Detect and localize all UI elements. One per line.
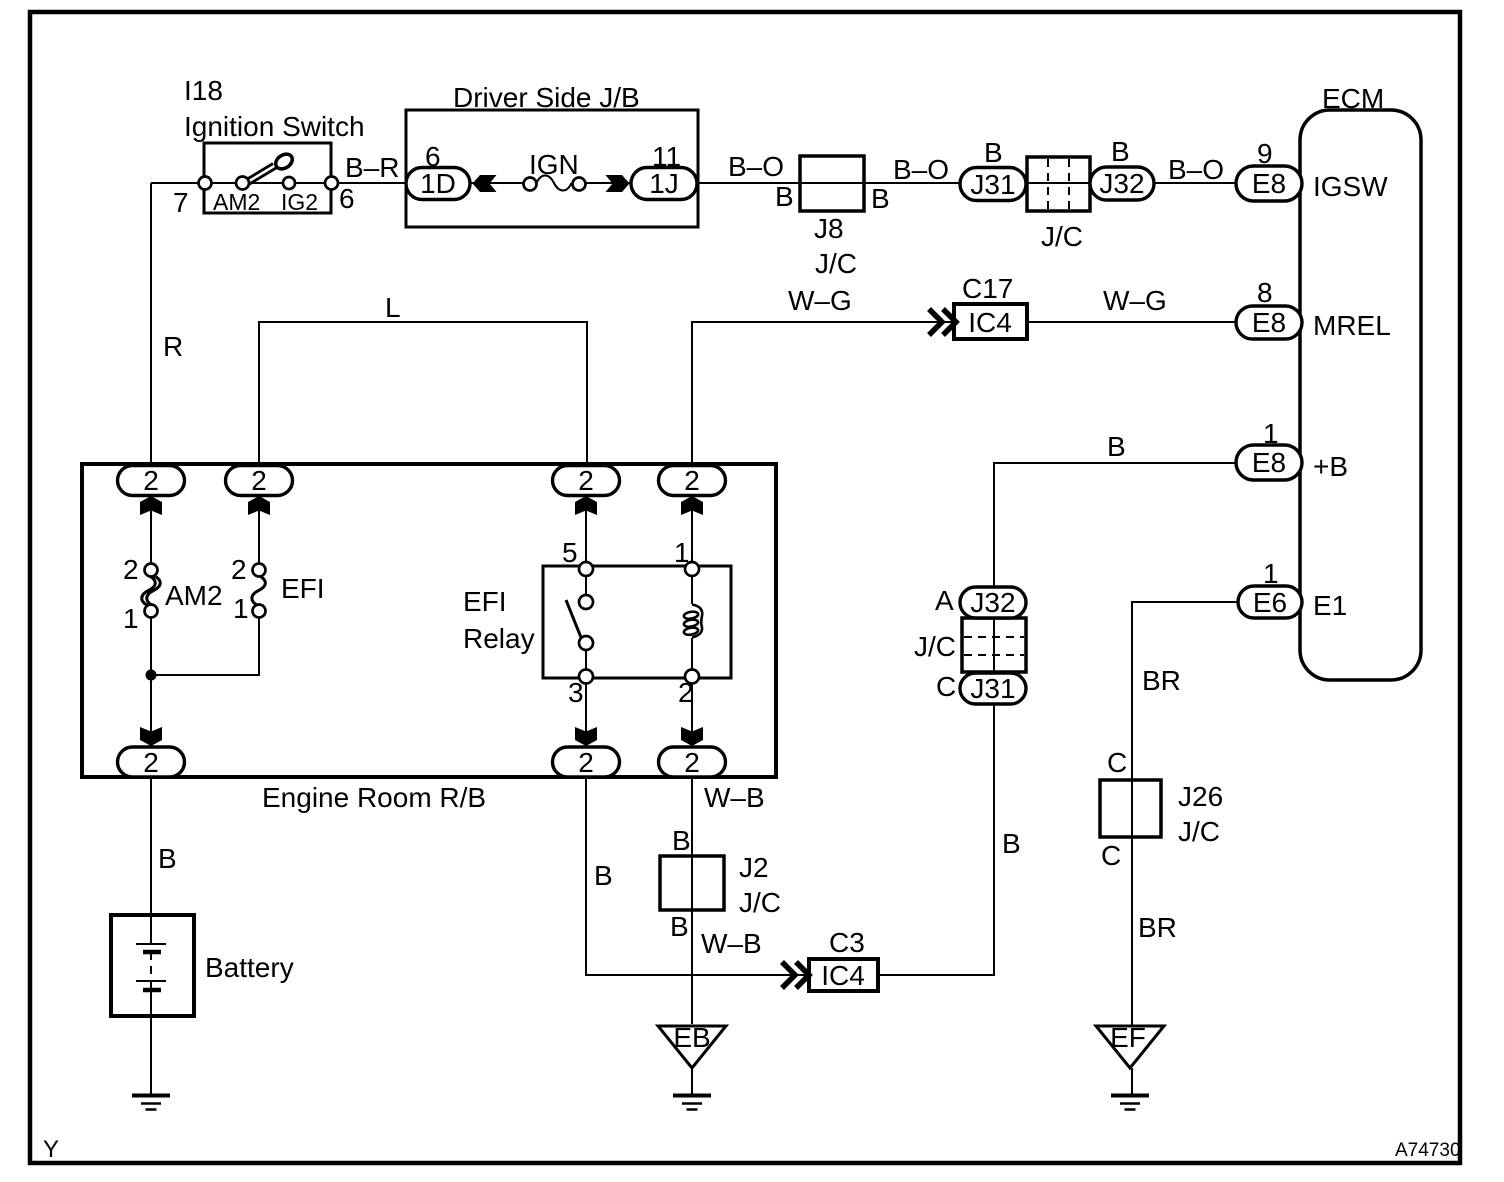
svg-text:Driver Side J/B: Driver Side J/B bbox=[453, 82, 640, 113]
svg-text:B: B bbox=[158, 843, 177, 874]
svg-text:2: 2 bbox=[143, 747, 159, 778]
svg-text:J/C: J/C bbox=[1178, 816, 1220, 847]
svg-text:BR: BR bbox=[1138, 912, 1177, 943]
svg-text:7: 7 bbox=[173, 187, 189, 218]
svg-text:J/C: J/C bbox=[1041, 221, 1083, 252]
svg-text:C: C bbox=[1107, 747, 1127, 778]
svg-text:R: R bbox=[163, 331, 183, 362]
svg-text:J31: J31 bbox=[970, 673, 1015, 704]
svg-text:B–O: B–O bbox=[728, 151, 784, 182]
svg-text:J/C: J/C bbox=[739, 887, 781, 918]
svg-text:E6: E6 bbox=[1253, 587, 1287, 618]
svg-text:J32: J32 bbox=[970, 587, 1015, 618]
svg-text:B: B bbox=[984, 137, 1003, 168]
svg-text:J2: J2 bbox=[739, 852, 769, 883]
svg-text:2: 2 bbox=[251, 465, 267, 496]
svg-text:B: B bbox=[1002, 828, 1021, 859]
svg-text:2: 2 bbox=[678, 677, 694, 708]
svg-text:E1: E1 bbox=[1313, 590, 1347, 621]
svg-text:C: C bbox=[1101, 840, 1121, 871]
svg-text:B–O: B–O bbox=[893, 154, 949, 185]
svg-text:J26: J26 bbox=[1178, 781, 1223, 812]
svg-text:C17: C17 bbox=[962, 273, 1013, 304]
svg-text:IGN: IGN bbox=[529, 149, 579, 180]
svg-text:5: 5 bbox=[562, 537, 578, 568]
svg-text:J31: J31 bbox=[970, 169, 1015, 200]
svg-text:B–O: B–O bbox=[1168, 154, 1224, 185]
svg-text:8: 8 bbox=[1257, 277, 1273, 308]
svg-text:IGSW: IGSW bbox=[1313, 171, 1388, 202]
svg-text:2: 2 bbox=[143, 465, 159, 496]
svg-text:1: 1 bbox=[1263, 418, 1279, 449]
svg-text:2: 2 bbox=[578, 747, 594, 778]
svg-text:IG2: IG2 bbox=[281, 189, 318, 215]
svg-text:E8: E8 bbox=[1252, 168, 1286, 199]
svg-text:EFI: EFI bbox=[281, 573, 325, 604]
svg-text:Y: Y bbox=[43, 1136, 59, 1163]
svg-text:J32: J32 bbox=[1099, 168, 1144, 199]
svg-text:BR: BR bbox=[1142, 665, 1181, 696]
svg-text:6: 6 bbox=[339, 183, 355, 214]
svg-text:AM2: AM2 bbox=[165, 580, 223, 611]
svg-text:IC4: IC4 bbox=[821, 960, 865, 991]
svg-text:L: L bbox=[385, 292, 401, 323]
svg-text:MREL: MREL bbox=[1313, 310, 1391, 341]
svg-text:B: B bbox=[1111, 136, 1130, 167]
svg-text:1: 1 bbox=[674, 537, 690, 568]
svg-text:W–B: W–B bbox=[704, 782, 765, 813]
svg-text:9: 9 bbox=[1257, 138, 1273, 169]
svg-text:2: 2 bbox=[123, 554, 139, 585]
svg-text:E8: E8 bbox=[1252, 307, 1286, 338]
svg-text:J/C: J/C bbox=[815, 248, 857, 279]
svg-text:B: B bbox=[672, 825, 691, 856]
svg-text:1: 1 bbox=[1263, 558, 1279, 589]
svg-text:Battery: Battery bbox=[205, 952, 294, 983]
svg-text:1: 1 bbox=[123, 603, 139, 634]
svg-text:B–R: B–R bbox=[345, 152, 399, 183]
svg-text:A: A bbox=[935, 585, 954, 616]
svg-text:W–G: W–G bbox=[1103, 285, 1167, 316]
svg-text:A74730: A74730 bbox=[1395, 1140, 1461, 1161]
svg-text:C: C bbox=[936, 671, 956, 702]
svg-text:ECM: ECM bbox=[1322, 83, 1384, 114]
svg-text:B: B bbox=[871, 183, 890, 214]
svg-text:EF: EF bbox=[1110, 1022, 1146, 1053]
svg-text:J/C: J/C bbox=[914, 631, 956, 662]
svg-text:AM2: AM2 bbox=[213, 189, 260, 215]
svg-text:J8: J8 bbox=[814, 213, 844, 244]
svg-text:2: 2 bbox=[231, 554, 247, 585]
svg-text:3: 3 bbox=[568, 677, 584, 708]
svg-text:2: 2 bbox=[578, 465, 594, 496]
svg-text:B: B bbox=[670, 911, 689, 942]
svg-text:W–G: W–G bbox=[788, 285, 852, 316]
svg-text:1D: 1D bbox=[420, 168, 456, 199]
svg-text:W–B: W–B bbox=[701, 928, 762, 959]
svg-text:1: 1 bbox=[233, 593, 249, 624]
svg-text:B: B bbox=[594, 860, 613, 891]
svg-text:IC4: IC4 bbox=[968, 307, 1012, 338]
svg-text:E8: E8 bbox=[1252, 447, 1286, 478]
svg-text:Engine Room R/B: Engine Room R/B bbox=[262, 782, 486, 813]
svg-text:Ignition Switch: Ignition Switch bbox=[184, 111, 365, 142]
svg-text:B: B bbox=[775, 181, 794, 212]
svg-text:B: B bbox=[1107, 431, 1126, 462]
svg-text:EFI: EFI bbox=[463, 586, 507, 617]
svg-text:EB: EB bbox=[673, 1022, 710, 1053]
svg-text:1J: 1J bbox=[649, 168, 679, 199]
svg-text:2: 2 bbox=[684, 747, 700, 778]
svg-text:2: 2 bbox=[684, 465, 700, 496]
svg-text:C3: C3 bbox=[829, 927, 865, 958]
svg-text:I18: I18 bbox=[184, 75, 223, 106]
svg-text:+B: +B bbox=[1313, 451, 1348, 482]
svg-text:Relay: Relay bbox=[463, 623, 535, 654]
